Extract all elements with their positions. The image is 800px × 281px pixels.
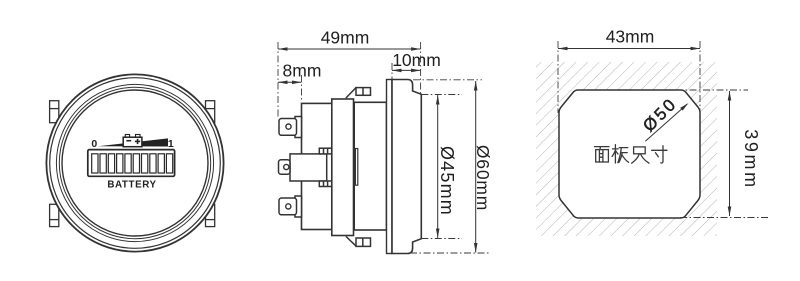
middle step block	[332, 99, 354, 236]
extension line dia60 top	[413, 79, 482, 81]
battery bar display frame	[88, 150, 175, 177]
extension line 39mm bottom	[680, 217, 768, 219]
svg-text:10mm: 10mm	[392, 50, 441, 70]
svg-text:43mm: 43mm	[606, 27, 655, 47]
mounting tab bottom-right	[206, 204, 215, 226]
gauge bezel second circle	[50, 78, 221, 249]
svg-text:8mm: 8mm	[283, 61, 322, 81]
svg-text:BATTERY: BATTERY	[107, 180, 156, 191]
gauge inner circle	[62, 90, 208, 236]
CJK char 寸	[652, 146, 667, 163]
extension line bezel rear	[391, 63, 393, 79]
bezel profile	[392, 80, 421, 254]
dimension 8mm	[278, 61, 321, 85]
extension line dia60 bottom	[410, 252, 490, 254]
dimension dia45mm	[436, 95, 457, 238]
terminal 1 (top)	[279, 117, 302, 138]
mid drum	[354, 102, 386, 230]
dimension 43mm	[558, 27, 700, 51]
extension line 43mm right	[699, 41, 701, 118]
label slot	[355, 149, 357, 186]
dia50 leader arrow	[639, 94, 688, 142]
extension line dia45 top	[421, 94, 462, 96]
scale wedge pointer	[98, 138, 168, 146]
terminal 2 blade	[279, 160, 291, 174]
dimension dia60mm	[473, 81, 493, 253]
extension line 39mm top	[676, 89, 748, 91]
battery bar segments	[92, 154, 173, 173]
dimension 39mm	[728, 91, 761, 216]
extension line body front	[301, 75, 303, 102]
CJK char 尺	[634, 147, 646, 154]
extension line dia45 bottom	[421, 238, 462, 240]
svg-text:Ø45mm: Ø45mm	[437, 146, 457, 216]
terminal 3 (bottom)	[279, 196, 302, 217]
panel cutout octagon	[559, 90, 700, 218]
svg-text:1: 1	[168, 138, 174, 150]
extension line bezel front	[420, 42, 422, 95]
svg-text:0: 0	[91, 138, 97, 150]
svg-text:39mm: 39mm	[741, 129, 761, 189]
svg-text:49mm: 49mm	[321, 28, 370, 48]
extension line left (terminal tip)	[277, 42, 279, 118]
gauge bezel outer circle	[46, 74, 223, 251]
top clip	[346, 88, 371, 98]
battery icon	[123, 135, 142, 147]
svg-text:Ø60mm: Ø60mm	[473, 145, 493, 211]
gauge ring circle 3	[56, 84, 213, 241]
CJK char 板	[612, 145, 618, 163]
extension line 43mm left	[557, 41, 559, 113]
panel size CJK label 面板尺寸	[595, 145, 668, 164]
CJK char 面	[595, 147, 610, 150]
mounting tab top-left	[50, 101, 59, 123]
bottom clip	[346, 237, 371, 247]
dimension 49mm	[278, 28, 421, 51]
terminal 2 block (middle)	[290, 148, 332, 186]
gauge ring circle 4	[59, 87, 210, 238]
panel hatch area	[536, 62, 717, 236]
mounting tab bottom-left	[50, 204, 59, 226]
rear housing	[302, 103, 332, 229]
flange	[387, 80, 393, 254]
dimension 10mm	[392, 50, 441, 72]
mounting tab top-right	[206, 101, 215, 123]
